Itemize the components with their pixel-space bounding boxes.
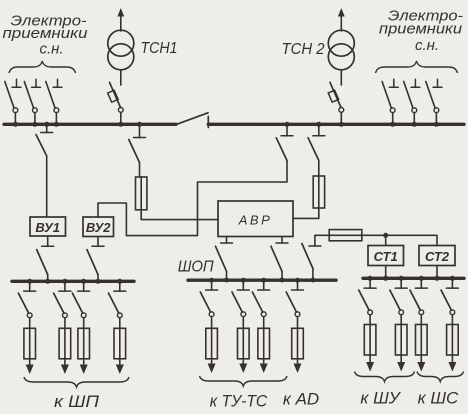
svg-text:СТ1: СТ1 [374,249,398,264]
brace k TU-TS [200,376,288,386]
junction to ST1 [383,233,388,246]
feeder to ShP 2 [54,279,71,374]
switch from right bus to fuse F2 [308,122,325,161]
feeder to ShU/ShS 3 [410,276,427,372]
AVR bottom pin 1 [221,237,233,244]
VU2 bottom pin [92,237,104,247]
breaker under TSN2 [328,82,344,127]
feeder to ShP 3 [72,279,89,374]
breaker under TSN1 [108,82,124,127]
switch from right bus to VU2 tie [276,122,293,161]
feeder to TU-TS/AD 3 [252,278,269,373]
svg-text:приемники: приемники [379,21,463,38]
transformer TSN1 [108,8,178,85]
svg-text:ВУ2: ВУ2 [86,220,111,235]
svg-text:с.н.: с.н. [415,37,439,54]
switch from left bus to VU1 [36,122,53,156]
svg-text:СТ2: СТ2 [425,249,450,264]
left s.n. feeder switch 2 [24,79,40,127]
wire from fuse F3 to contact [315,235,329,246]
svg-text:к ШС: к ШС [418,389,459,408]
automatic transfer switch AVR [218,201,293,237]
svg-text:к АD: к АD [283,390,319,409]
feeder to TU-TS/AD 1 [200,278,217,373]
label: right consumers text [379,8,463,55]
main bus left section [4,123,176,126]
left DC bus [12,280,134,283]
right s.n. feeder switch 1 [382,79,398,127]
svg-text:к ТУ-ТС: к ТУ-ТС [210,392,268,411]
feeder to ShU/ShS 4 [441,276,458,372]
brace k ShU [355,372,415,382]
wire fuse F2 to AVR right input [293,208,319,219]
stabilizer ST2 [419,246,455,266]
left s.n. feeder switch 3 [46,79,62,127]
wire fuse F3 to ST units [362,235,437,245]
label: left consumers text [3,13,89,58]
switch from left bus to fuse F1 [129,122,146,163]
feeder to TU-TS/AD 2 [232,278,249,373]
right s.n. feeder switch 3 [426,79,442,127]
svg-text:с.н.: с.н. [39,41,63,58]
svg-text:ТСН1: ТСН1 [141,40,178,57]
feeder to ShP 1 [18,279,35,374]
main bus right section [208,123,464,126]
feeder to TU-TS/AD 4 [286,278,303,373]
fuse F1 [136,177,147,211]
switch SHOP bus to fuse F3 [302,244,316,283]
right bus [363,277,464,280]
svg-text:ТСН 2: ТСН 2 [282,41,325,58]
switch SHOP bus to AVR pin 2 [271,246,285,282]
wire ST2 to right bus [435,266,440,281]
wire to fuse F1 [139,163,141,177]
transformer TSN2 [282,8,355,85]
svg-text:к ШП: к ШП [54,392,100,411]
wire fuse F1 to AVR left input [141,210,218,220]
step wire right bus to VU2 [98,161,287,236]
right s.n. feeder switch 2 [404,79,420,127]
svg-text:ШОП: ШОП [178,259,214,276]
switch left DC bus to VU1 [37,250,51,284]
wire ST1 to right bus [383,266,388,281]
wire to VU1 [46,156,48,217]
VU1 bottom pin [42,236,54,246]
rectifier unit VU2 [83,217,114,237]
feeder to ShU/ShS 2 [390,276,407,372]
contact bar above SHOP [309,245,321,247]
fuse F3 horizontal [329,230,362,241]
fuse F2 [313,176,324,209]
switch SHOP bus to AVR pin 1 [216,246,230,282]
brace k ShP [24,377,129,387]
rectifier unit VU1 [30,217,66,236]
SHOP bus [188,279,336,282]
feeder to ShP 4 [109,279,126,374]
feeder to ShU/ShS 1 [359,276,376,372]
wire to fuse F2 [318,161,320,176]
left s.n. feeder switch 1 [5,79,21,127]
switch left DC bus to VU2 [87,250,101,284]
svg-text:ВУ1: ВУ1 [35,220,60,235]
svg-text:АВР: АВР [238,213,273,228]
AVR bottom pin 2 [276,237,288,244]
svg-text:приемники: приемники [3,25,89,42]
brace over left consumers [9,61,76,73]
brace k ShS [417,372,464,382]
svg-text:к ШУ: к ШУ [360,389,401,408]
brace over right consumers [376,61,458,73]
stabilizer ST1 [368,246,404,266]
bus sectionalizer switch QS [176,113,208,128]
